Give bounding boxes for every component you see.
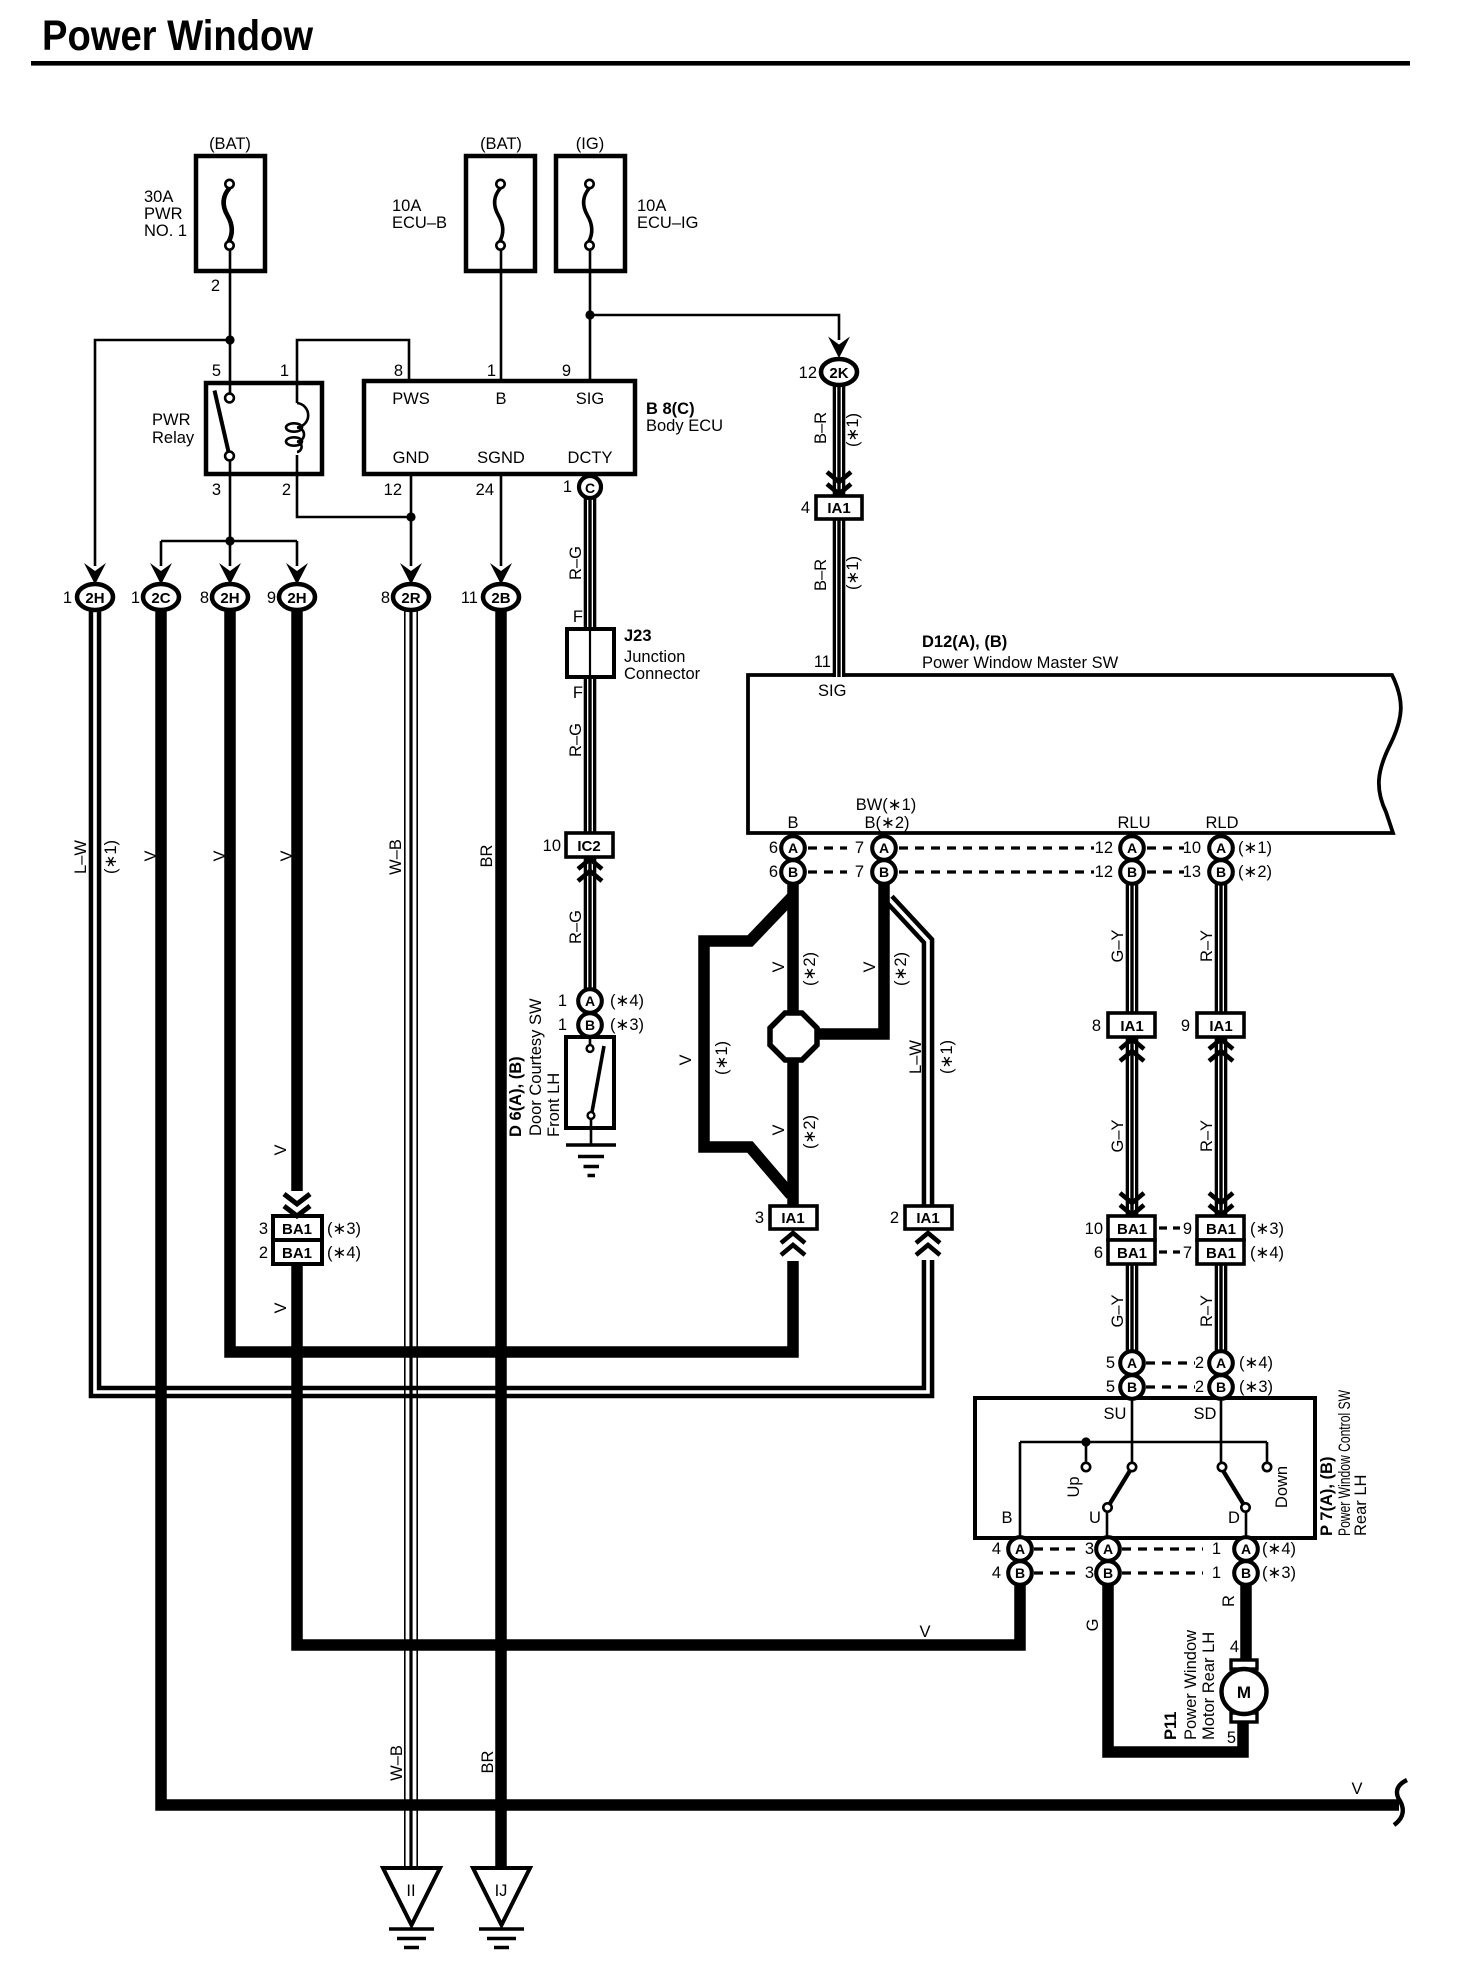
chevrons down into 10BA1 <box>1120 1193 1144 1215</box>
svg-text:A: A <box>1216 840 1226 856</box>
svg-text:W–B: W–B <box>387 839 405 875</box>
control SW junction dot <box>1081 1437 1090 1446</box>
svg-text:(∗4): (∗4) <box>327 1244 361 1262</box>
thick wire V master 7B down and left to octagon <box>816 880 884 1034</box>
svg-text:ECU–B: ECU–B <box>392 214 447 232</box>
svg-text:(∗1): (∗1) <box>102 840 120 874</box>
svg-text:SIG: SIG <box>576 390 604 408</box>
svg-text:A: A <box>1127 1355 1137 1371</box>
thick wire V master 6B straight down to 3 IA1 <box>787 880 799 1206</box>
svg-text:2C: 2C <box>151 590 170 607</box>
control pin circle 4B <box>1008 1561 1032 1585</box>
svg-text:Rear LH: Rear LH <box>1352 1475 1370 1536</box>
svg-text:DCTY: DCTY <box>568 449 613 467</box>
control SW inner wires <box>1020 1398 1267 1538</box>
svg-text:G–Y: G–Y <box>1109 929 1127 962</box>
thick wire V from 2H-8 down, right along y1352, up to 3 IA1 <box>230 610 793 1352</box>
svg-text:(∗3): (∗3) <box>1250 1220 1284 1238</box>
fuse 10A ECU-B element <box>495 188 503 242</box>
svg-text:4: 4 <box>992 1564 1001 1582</box>
svg-text:10: 10 <box>1085 1220 1103 1238</box>
svg-text:J23: J23 <box>624 627 652 645</box>
svg-text:V: V <box>278 850 296 861</box>
svg-text:IA1: IA1 <box>916 1210 939 1227</box>
svg-text:7: 7 <box>855 839 864 857</box>
connector 4 IA1 box <box>816 496 862 519</box>
svg-text:P 7(A), (B): P 7(A), (B) <box>1318 1457 1336 1536</box>
dashed links master row A <box>808 846 1184 849</box>
master pin circle 13B <box>1209 860 1233 884</box>
svg-text:PWS: PWS <box>392 390 430 408</box>
svg-text:B–R: B–R <box>812 412 830 444</box>
svg-text:F: F <box>573 608 583 626</box>
svg-text:6: 6 <box>1094 1244 1103 1262</box>
svg-text:6: 6 <box>769 839 778 857</box>
chevrons up into 8 IA1 <box>1120 1039 1144 1061</box>
svg-text:9: 9 <box>1183 1220 1192 1238</box>
svg-text:(∗1): (∗1) <box>844 413 862 447</box>
svg-text:R–Y: R–Y <box>1198 930 1216 962</box>
svg-text:M: M <box>1237 1683 1251 1702</box>
svg-text:L–W: L–W <box>72 840 90 874</box>
thick wire V from below 2BA1 down, right along y1645, up to control 4B <box>297 1264 1020 1645</box>
chevrons down into 9BA1 <box>1209 1193 1233 1215</box>
arrowhead into 2C <box>150 563 172 585</box>
fuse 30A PWR NO.1 box <box>196 156 265 271</box>
svg-text:BA1: BA1 <box>1117 1245 1147 1262</box>
svg-text:SU: SU <box>1104 1405 1127 1423</box>
svg-text:10A: 10A <box>637 197 666 215</box>
thick wire G from control 3B to motor bottom <box>1108 1582 1243 1752</box>
svg-text:11: 11 <box>461 589 478 607</box>
svg-text:B: B <box>1015 1565 1025 1581</box>
svg-text:G: G <box>1084 1619 1102 1632</box>
break symbol at V wire right end <box>1394 1780 1407 1825</box>
svg-text:BA1: BA1 <box>1117 1221 1147 1238</box>
svg-text:5: 5 <box>1106 1354 1115 1372</box>
svg-text:6: 6 <box>769 863 778 881</box>
svg-text:A: A <box>1103 1541 1113 1557</box>
dashed links BA1 pairs <box>1159 1228 1180 1252</box>
junction dot ECU-IG/SIG <box>585 310 594 319</box>
master pin circle 7A <box>872 836 896 860</box>
control pin circle 2A <box>1209 1351 1233 1375</box>
svg-text:Power Window: Power Window <box>1182 1630 1200 1740</box>
svg-text:A: A <box>1216 1355 1226 1371</box>
J23 junction connector box <box>567 629 614 677</box>
svg-text:G–Y: G–Y <box>1109 1294 1127 1327</box>
svg-text:B: B <box>1127 1379 1137 1395</box>
svg-text:V: V <box>272 1144 290 1155</box>
svg-text:Power Window Master SW: Power Window Master SW <box>922 654 1119 672</box>
fuse 10A ECU-B box <box>466 156 535 271</box>
svg-text:B 8(C): B 8(C) <box>646 400 695 418</box>
svg-text:B: B <box>585 1017 595 1033</box>
arrowhead into 2H-1 <box>84 563 106 585</box>
svg-text:B–R: B–R <box>812 559 830 591</box>
svg-text:V: V <box>211 850 229 861</box>
master pin circle 12B <box>1120 860 1144 884</box>
relay coil <box>297 403 308 452</box>
svg-text:Power Window: Power Window <box>42 13 314 60</box>
svg-text:B: B <box>788 864 798 880</box>
svg-text:(∗3): (∗3) <box>610 1016 644 1034</box>
control SW contact circles <box>1128 1463 1136 1471</box>
svg-text:4: 4 <box>801 499 810 517</box>
oval connector 9 2H <box>279 584 315 610</box>
wire L-W (*1) branch from master 7B diagonal down to 2 IA1 column <box>889 899 928 1206</box>
svg-text:IA1: IA1 <box>781 1210 804 1227</box>
svg-text:BW(∗1): BW(∗1) <box>856 796 917 814</box>
relay PWR Relay box <box>206 383 322 474</box>
oval connector 1 2C <box>143 584 179 610</box>
control pin circle 1B <box>1234 1561 1258 1585</box>
svg-text:IC2: IC2 <box>577 838 600 855</box>
svg-text:(BAT): (BAT) <box>480 135 522 153</box>
chevrons up into 3 IA1 <box>781 1233 805 1255</box>
svg-text:D12(A), (B): D12(A), (B) <box>922 633 1007 651</box>
svg-text:II: II <box>406 1882 415 1900</box>
svg-text:10: 10 <box>1183 839 1201 857</box>
svg-text:3: 3 <box>212 481 221 499</box>
control pin circle 5B <box>1120 1375 1144 1399</box>
arrowhead into 2K <box>828 337 850 359</box>
master pin circle 6B <box>781 860 805 884</box>
arrowhead into 2R <box>400 563 422 585</box>
svg-text:2K: 2K <box>829 365 848 382</box>
power window control SW box P7 <box>975 1398 1315 1538</box>
svg-text:2R: 2R <box>401 590 420 607</box>
svg-text:30A: 30A <box>144 188 173 206</box>
fuse 30A element <box>224 188 232 242</box>
svg-text:1: 1 <box>1212 1540 1221 1558</box>
door courtesy pin circle B <box>578 1013 602 1037</box>
svg-text:B: B <box>879 864 889 880</box>
svg-text:(IG): (IG) <box>576 135 604 153</box>
svg-text:Door Courtesy SW: Door Courtesy SW <box>527 998 545 1136</box>
svg-text:BA1: BA1 <box>1206 1245 1236 1262</box>
svg-text:1: 1 <box>1212 1564 1221 1582</box>
door courtesy pin circle A <box>578 989 602 1013</box>
chevrons up into IC2 <box>578 859 602 881</box>
svg-text:1: 1 <box>63 589 72 607</box>
svg-text:B: B <box>1216 864 1226 880</box>
svg-text:5: 5 <box>212 362 221 380</box>
chevrons down into 3BA1 on V wire <box>284 1194 310 1216</box>
svg-text:V: V <box>1351 1780 1362 1798</box>
wire relay pin3 to junction y541 <box>229 460 232 541</box>
svg-text:B: B <box>495 390 506 408</box>
thick wire V from 2C down along bottom to break <box>161 610 1399 1805</box>
svg-text:1: 1 <box>563 478 572 496</box>
wire L-W (*1) from 2H pin1 down, right along y1392, up to 2 IA1 <box>95 610 928 1392</box>
svg-text:13: 13 <box>1183 863 1201 881</box>
svg-text:IJ: IJ <box>495 1882 508 1900</box>
svg-text:(∗3): (∗3) <box>1262 1564 1296 1582</box>
svg-text:2: 2 <box>259 1244 268 1262</box>
svg-text:Down: Down <box>1273 1466 1291 1508</box>
svg-text:(∗2): (∗2) <box>892 952 910 986</box>
svg-text:C: C <box>585 480 595 496</box>
wire relay pin2 down right to GND line <box>297 455 411 517</box>
connector 9 IA1 box <box>1197 1013 1244 1037</box>
svg-text:Junction: Junction <box>624 648 685 666</box>
svg-text:SD: SD <box>1194 1405 1217 1423</box>
svg-text:2B: 2B <box>491 590 510 607</box>
svg-text:BR: BR <box>478 844 496 867</box>
svg-text:IA1: IA1 <box>1209 1018 1232 1035</box>
svg-text:B: B <box>1216 1379 1226 1395</box>
svg-text:P11: P11 <box>1162 1712 1180 1740</box>
thick wire V (*1) master 6B left detour loop <box>704 896 793 1195</box>
thick wire R from control 1B to motor top <box>1240 1582 1252 1662</box>
svg-text:BA1: BA1 <box>282 1221 312 1238</box>
IC2 connector box <box>566 833 613 857</box>
fuse 10A ECU-IG element <box>584 188 592 242</box>
svg-text:ECU–IG: ECU–IG <box>637 214 698 232</box>
ground IJ triangle <box>473 1868 530 1925</box>
svg-text:7: 7 <box>1183 1244 1192 1262</box>
svg-text:R–Y: R–Y <box>1198 1120 1216 1152</box>
svg-text:Motor Rear LH: Motor Rear LH <box>1200 1632 1218 1740</box>
control SW pin stubs U D <box>1107 1511 1246 1538</box>
svg-text:(∗4): (∗4) <box>1262 1540 1296 1558</box>
connector 2 IA1 box <box>905 1206 952 1229</box>
connector 3 IA1 box <box>770 1206 817 1229</box>
svg-text:(∗2): (∗2) <box>1238 863 1272 881</box>
svg-text:V: V <box>919 1623 930 1641</box>
svg-text:V: V <box>770 961 788 972</box>
svg-text:3: 3 <box>259 1220 268 1238</box>
svg-text:NO. 1: NO. 1 <box>144 222 187 240</box>
svg-text:SIG: SIG <box>818 682 846 700</box>
svg-text:2H: 2H <box>85 590 104 607</box>
arrowhead into 2H-9 <box>286 563 308 585</box>
svg-text:Connector: Connector <box>624 665 701 683</box>
svg-text:1: 1 <box>131 589 140 607</box>
svg-text:V: V <box>861 961 879 972</box>
svg-text:24: 24 <box>476 481 494 499</box>
svg-text:B: B <box>787 814 798 832</box>
control pin circle 5A <box>1120 1351 1144 1375</box>
svg-text:Up: Up <box>1065 1476 1083 1497</box>
svg-text:9: 9 <box>1181 1017 1190 1035</box>
connector 8 IA1 box <box>1108 1013 1155 1037</box>
svg-text:2: 2 <box>282 481 291 499</box>
svg-text:RLD: RLD <box>1205 814 1238 832</box>
junction dot fuse/relay <box>225 335 234 344</box>
svg-text:(∗2): (∗2) <box>801 1115 819 1149</box>
dashed links 5-2 circles <box>1146 1363 1195 1387</box>
wire from fuse 30A pin2 to relay pin5 <box>229 250 232 394</box>
dashed links control circles <box>1034 1549 1203 1573</box>
dashed links master row B <box>808 870 1184 873</box>
svg-text:3: 3 <box>755 1209 764 1227</box>
door courtesy SW inner wire and arm <box>590 1036 591 1145</box>
ground II triangle <box>383 1868 440 1925</box>
svg-text:A: A <box>1015 1541 1025 1557</box>
door courtesy SW box D6 <box>566 1037 614 1128</box>
svg-text:9: 9 <box>562 362 571 380</box>
svg-text:U: U <box>1089 1509 1101 1527</box>
svg-text:8: 8 <box>1092 1017 1101 1035</box>
svg-text:GND: GND <box>393 449 430 467</box>
svg-text:R: R <box>1220 1595 1238 1607</box>
svg-text:7: 7 <box>855 863 864 881</box>
wire fuse ECU-IG to ECU SIG pin9 <box>589 250 592 381</box>
wire ECU GND pin12 down to 2R <box>410 474 413 566</box>
svg-text:V: V <box>272 1302 290 1313</box>
svg-text:4: 4 <box>1230 1638 1239 1656</box>
relay switch arm <box>215 391 230 455</box>
svg-text:(∗4): (∗4) <box>1239 1354 1273 1372</box>
power window master SW box D12 <box>748 675 1401 833</box>
fuse 10A ECU-IG box <box>556 156 625 271</box>
svg-text:(∗4): (∗4) <box>1250 1244 1284 1262</box>
svg-text:Front LH: Front LH <box>545 1073 563 1137</box>
svg-text:B: B <box>1001 1509 1012 1527</box>
connector 10/6 BA1 stacked boxes <box>1108 1216 1155 1240</box>
svg-text:RLU: RLU <box>1117 814 1150 832</box>
svg-text:BA1: BA1 <box>282 1245 312 1262</box>
svg-text:A: A <box>879 840 889 856</box>
wire G-Y from master 12B down to control 5A <box>1126 880 1139 1354</box>
svg-text:(∗1): (∗1) <box>1238 839 1272 857</box>
connector 3/2 BA1 stacked boxes x297 <box>273 1216 322 1240</box>
svg-text:2: 2 <box>1195 1378 1204 1396</box>
svg-text:1: 1 <box>280 362 289 380</box>
svg-text:12: 12 <box>799 364 817 382</box>
motor M brushes and body <box>1231 1660 1257 1669</box>
svg-text:8: 8 <box>200 589 209 607</box>
svg-text:12: 12 <box>384 481 402 499</box>
svg-text:8: 8 <box>381 589 390 607</box>
svg-text:2H: 2H <box>220 590 239 607</box>
TEXT-LAYER <box>63 135 1370 1900</box>
svg-text:12: 12 <box>1095 839 1113 857</box>
BIG BOXES LAYER <box>196 156 1401 1538</box>
wire R-Y from master 13B down to control 2A <box>1215 880 1228 1354</box>
svg-text:11: 11 <box>814 653 831 671</box>
svg-text:IA1: IA1 <box>1120 1018 1143 1035</box>
master pin circle 10A <box>1209 836 1233 860</box>
svg-text:2: 2 <box>1195 1354 1204 1372</box>
wire from SIG junction right and down to 2K <box>590 315 839 340</box>
svg-text:1: 1 <box>558 992 567 1010</box>
svg-text:V: V <box>770 1124 788 1135</box>
thick wire V from 2H-9 down to 3BA1 arrow <box>291 610 303 1191</box>
svg-text:2: 2 <box>890 1209 899 1227</box>
wire fuse ECU-B to ECU B pin1 <box>500 250 503 381</box>
octagon noise filter on V wire <box>770 1013 817 1060</box>
arrowhead into 2B <box>490 563 512 585</box>
control SW right arm D <box>1222 1469 1244 1505</box>
svg-text:10A: 10A <box>392 197 421 215</box>
wire relay pin1 up over to ECU PWS pin8 <box>297 340 409 403</box>
svg-text:(∗3): (∗3) <box>1239 1378 1273 1396</box>
svg-text:A: A <box>585 993 595 1009</box>
wire B-R (*1) from 2K down to master SIG pin11 <box>833 384 846 677</box>
svg-text:BA1: BA1 <box>1206 1221 1236 1238</box>
control SW left arm U <box>1109 1469 1131 1505</box>
oval connector 1 2H <box>77 584 113 610</box>
svg-text:SGND: SGND <box>477 449 525 467</box>
svg-text:4: 4 <box>992 1540 1001 1558</box>
control pin circle 3A <box>1096 1537 1120 1561</box>
oval connector 8 2R <box>393 584 429 610</box>
svg-text:A: A <box>1127 840 1137 856</box>
master pin circle 6A <box>781 836 805 860</box>
title rule <box>31 61 1410 66</box>
svg-text:2: 2 <box>211 277 220 295</box>
J23 inner wire <box>589 629 591 677</box>
svg-text:(∗1): (∗1) <box>844 556 862 590</box>
svg-text:G–Y: G–Y <box>1109 1119 1127 1152</box>
oval connector 8 2H <box>212 584 248 610</box>
svg-text:D 6(A), (B): D 6(A), (B) <box>507 1056 525 1137</box>
svg-text:(∗1): (∗1) <box>938 1040 956 1074</box>
master pin circle 12A <box>1120 836 1144 860</box>
oval connector 11 2B <box>483 584 519 610</box>
connector circle C at DCTY <box>579 476 601 498</box>
svg-text:R–G: R–G <box>567 723 585 757</box>
svg-text:B: B <box>1241 1565 1251 1581</box>
svg-text:L–W: L–W <box>907 1040 925 1074</box>
svg-text:B: B <box>1127 864 1137 880</box>
connector 9/7 BA1 stacked boxes <box>1197 1216 1244 1240</box>
svg-text:10: 10 <box>543 837 561 855</box>
svg-text:9: 9 <box>267 589 276 607</box>
svg-text:A: A <box>788 840 798 856</box>
svg-text:W–B: W–B <box>388 1745 406 1781</box>
body ECU box B 8(C) <box>364 381 635 474</box>
svg-text:5: 5 <box>1227 1729 1236 1747</box>
wire W-B from 2R down to ground II <box>404 610 418 1870</box>
svg-text:5: 5 <box>1106 1378 1115 1396</box>
svg-text:(∗3): (∗3) <box>327 1220 361 1238</box>
svg-text:Relay: Relay <box>152 429 195 447</box>
svg-text:Body ECU: Body ECU <box>646 417 723 435</box>
svg-text:3: 3 <box>1085 1540 1094 1558</box>
svg-text:R–G: R–G <box>567 546 585 580</box>
svg-text:B: B <box>1103 1565 1113 1581</box>
control pin circle 4A <box>1008 1537 1032 1561</box>
relay contact circles <box>225 394 234 403</box>
chevrons down into 4 IA1 <box>827 472 851 494</box>
svg-text:BR: BR <box>479 1750 497 1773</box>
svg-text:2H: 2H <box>287 590 306 607</box>
svg-text:8: 8 <box>394 362 403 380</box>
svg-text:(∗2): (∗2) <box>801 952 819 986</box>
svg-text:B(∗2): B(∗2) <box>865 814 910 832</box>
oval connector 12 2K <box>821 359 857 385</box>
chevrons up into 2 IA1 <box>916 1233 940 1255</box>
svg-text:D: D <box>1228 1509 1240 1527</box>
svg-text:R–G: R–G <box>567 910 585 944</box>
door courtesy ground <box>566 1145 616 1176</box>
thick wire BR from 2B down to ground IJ <box>495 610 507 1870</box>
wire R-G from DCTY C down to door courtesy A <box>584 496 597 992</box>
junction dot relay pin3 bus <box>225 536 234 545</box>
svg-text:12: 12 <box>1095 863 1113 881</box>
junction dot GND/relay pin2 <box>406 512 415 521</box>
control pin circle 2B <box>1209 1375 1233 1399</box>
svg-text:1: 1 <box>487 362 496 380</box>
control pin circle 3B <box>1096 1561 1120 1585</box>
control pin circle 1A <box>1234 1537 1258 1561</box>
chevrons up into 9 IA1 <box>1209 1039 1233 1061</box>
svg-text:F: F <box>573 684 583 702</box>
